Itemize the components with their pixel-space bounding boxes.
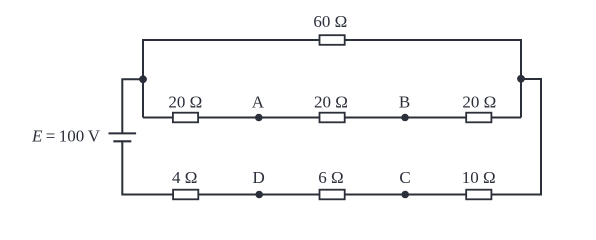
svg-text:4 Ω: 4 Ω [172, 168, 197, 187]
resistor 20 ohm box (center, middle rail) [320, 113, 345, 123]
svg-text:C: C [399, 168, 410, 187]
wire top rail right segment [345, 39, 522, 41]
wire bottom rail segment 4 [491, 194, 541, 196]
svg-text:B: B [399, 93, 410, 112]
resistor 60 ohm box [320, 35, 345, 45]
junction dot left [139, 75, 147, 83]
svg-text:20 Ω: 20 Ω [462, 93, 496, 112]
svg-text:10 Ω: 10 Ω [462, 168, 496, 187]
wire middle rail segment 3 (R2 to node B to R3) [345, 117, 467, 119]
wire bottom rail segment 1 [121, 194, 173, 196]
svg-text:6 Ω: 6 Ω [318, 168, 343, 187]
resistor 6 ohm box (bottom rail) [320, 190, 345, 200]
wire right outer branch (junction to bottom rail) [521, 79, 541, 195]
svg-text:60 Ω: 60 Ω [313, 12, 347, 31]
wire top rail left segment [143, 39, 320, 41]
wire bottom rail segment 2 (R4 to node D to R5) [198, 194, 319, 196]
battery E (voltage source) [109, 133, 137, 141]
wire battery bottom lead (battery to bottom rail) [121, 142, 123, 195]
node B dot [401, 114, 409, 122]
svg-text:D: D [253, 168, 265, 187]
resistor 20 ohm box (right, middle rail) [466, 113, 491, 123]
svg-text:20 Ω: 20 Ω [314, 93, 348, 112]
svg-text:A: A [252, 93, 265, 112]
resistor 4 ohm box (bottom rail) [173, 190, 198, 200]
svg-text:E = 100 V: E = 100 V [31, 126, 101, 145]
wire battery top lead (junction to battery) [122, 79, 143, 133]
node A dot [255, 114, 263, 122]
junction dot right [517, 75, 525, 83]
resistor 20 ohm box (left, middle rail) [173, 113, 198, 123]
wire right vertical (top rail to middle rail) [520, 39, 522, 117]
wire left vertical (top rail to middle rail) [142, 39, 144, 117]
wire middle rail segment 4 [491, 117, 521, 119]
wire middle rail segment 1 [143, 117, 173, 119]
wire bottom rail segment 3 (R5 to node C to R6) [345, 194, 467, 196]
svg-text:20 Ω: 20 Ω [168, 93, 202, 112]
node C dot [401, 191, 409, 199]
wire middle rail segment 2 (R1 to node A to R2) [198, 117, 319, 119]
node D dot [255, 191, 263, 199]
resistor 10 ohm box (bottom rail) [466, 190, 491, 200]
